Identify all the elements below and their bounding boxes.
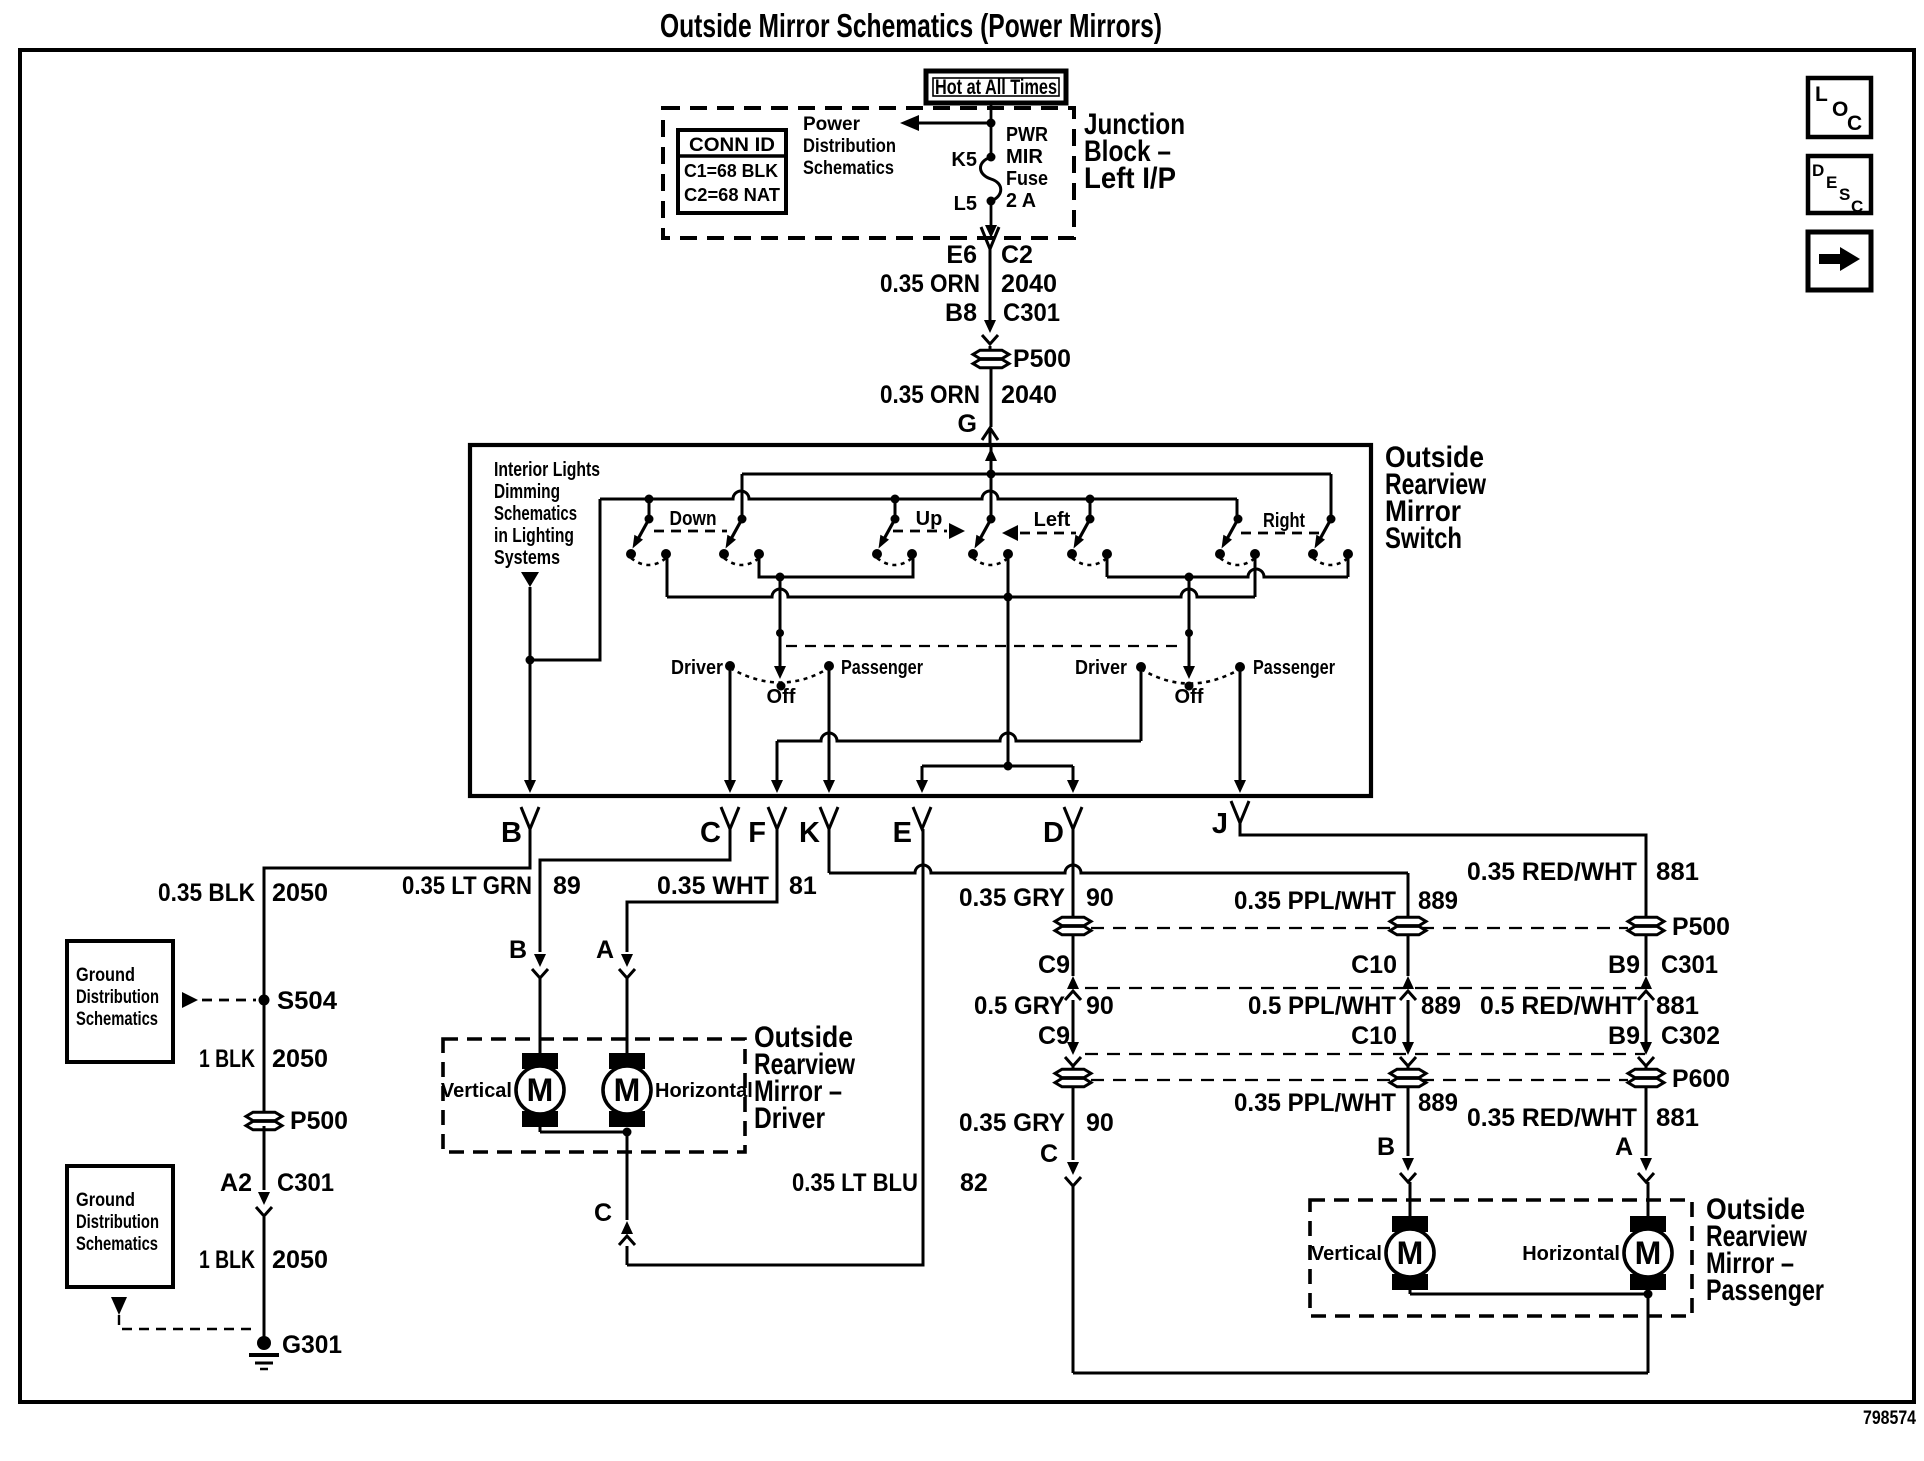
svg-text:Horizontal: Horizontal	[655, 1080, 753, 1102]
connector C301 break	[984, 320, 996, 333]
svg-text:B8: B8	[945, 299, 977, 327]
switch S2 (down pair)	[719, 515, 764, 566]
switch S1 (down)	[626, 515, 671, 566]
stub switch3	[894, 499, 897, 519]
Down dashed link	[654, 530, 727, 533]
svg-text:Outside Mirror Schematics (Pow: Outside Mirror Schematics (Power Mirrors…	[660, 7, 1162, 44]
wire J to RED column	[1240, 823, 1646, 917]
svg-text:0.35 PPL/WHT: 0.35 PPL/WHT	[1234, 887, 1396, 915]
dashed link to G301	[119, 1315, 252, 1329]
svg-text:89: 89	[553, 872, 581, 900]
svg-text:C2: C2	[1001, 241, 1033, 269]
stub switch2	[741, 474, 744, 519]
connector P500 inline	[973, 350, 1009, 358]
svg-text:C1=68 BLK: C1=68 BLK	[684, 161, 778, 181]
svg-text:881: 881	[1656, 858, 1699, 886]
motor M horizontal (passenger)	[1522, 1216, 1672, 1290]
svg-text:2040: 2040	[1001, 381, 1057, 409]
svg-text:0.5 PPL/WHT: 0.5 PPL/WHT	[1248, 992, 1396, 1020]
connector P600 inline (RED)	[1628, 1069, 1664, 1077]
svg-text:P500: P500	[1672, 913, 1730, 941]
wire into vertical motor	[539, 978, 542, 1056]
svg-text:0.35 ORN: 0.35 ORN	[880, 381, 980, 409]
contact Driver 1	[725, 661, 735, 671]
motor M vertical (passenger)	[1311, 1216, 1434, 1290]
switch S4 (up/left pair)	[968, 515, 1013, 566]
svg-text:1 BLK: 1 BLK	[199, 1246, 255, 1274]
svg-text:S: S	[1839, 185, 1850, 204]
svg-text:MIR: MIR	[1006, 146, 1044, 168]
svg-text:0.35 PPL/WHT: 0.35 PPL/WHT	[1234, 1089, 1396, 1117]
svg-text:Driver: Driver	[671, 657, 723, 679]
dashed connector line P600	[1091, 1079, 1628, 1081]
wire RED to P600	[1645, 1066, 1648, 1069]
wire C col to bottom	[1072, 1186, 1075, 1373]
selector dashed arc 1	[730, 668, 829, 683]
svg-text:P600: P600	[1672, 1065, 1730, 1093]
svg-text:Distribution: Distribution	[803, 136, 896, 157]
connector G chevron	[982, 428, 998, 440]
connector P500 inline (GRY)	[1055, 917, 1091, 925]
svg-text:Interior Lights: Interior Lights	[494, 459, 600, 481]
svg-text:0.35 WHT: 0.35 WHT	[657, 872, 769, 900]
wire P500 to G	[990, 368, 993, 427]
svg-text:Left: Left	[1034, 509, 1071, 531]
svg-text:Passenger: Passenger	[1253, 657, 1335, 679]
node S4R column on S1R-S6R line	[1004, 593, 1013, 602]
svg-text:C: C	[1851, 197, 1863, 216]
ground distribution box 1	[67, 941, 173, 1062]
svg-text:C2=68 NAT: C2=68 NAT	[684, 185, 780, 205]
wire B to S504 column	[264, 829, 530, 1117]
wire PPL to P600	[1407, 1066, 1410, 1069]
svg-text:2040: 2040	[1001, 270, 1057, 298]
svg-text:0.35 RED/WHT: 0.35 RED/WHT	[1467, 1104, 1637, 1132]
wire Driver2 to F	[1140, 667, 1143, 741]
svg-text:in Lighting: in Lighting	[494, 525, 574, 547]
ground G301 symbol	[257, 1336, 271, 1350]
wire Passenger2 to J	[1239, 667, 1242, 781]
contact Off (passenger side)	[1185, 682, 1194, 691]
junction block dashed box	[663, 108, 1074, 238]
wire GRY col upper	[1072, 829, 1075, 917]
svg-text:Off: Off	[767, 686, 796, 708]
Left dashed arrow	[1002, 525, 1018, 541]
svg-text:F: F	[748, 817, 766, 849]
connector break C10 down	[1402, 1042, 1414, 1055]
wire A2 to G301	[263, 1126, 266, 1190]
Up dashed arrow	[893, 530, 947, 533]
wire interior lights to B	[529, 587, 532, 781]
svg-text:M: M	[1397, 1235, 1424, 1271]
wire PPL col mid	[1407, 1000, 1410, 1042]
svg-text:Schematics: Schematics	[76, 1234, 158, 1255]
svg-text:Horizontal: Horizontal	[1522, 1243, 1620, 1265]
svg-text:81: 81	[789, 872, 817, 900]
connector break B9 up	[1640, 976, 1652, 989]
switch S7 (right pair)	[1308, 515, 1353, 566]
svg-text:Vertical: Vertical	[441, 1080, 512, 1102]
svg-text:Fuse: Fuse	[1006, 168, 1048, 190]
wire PPL col upper	[1407, 935, 1410, 976]
svg-text:C9: C9	[1038, 951, 1070, 979]
svg-text:C301: C301	[1003, 299, 1060, 327]
svg-text:C: C	[1040, 1140, 1058, 1168]
dashed connector line C302	[1085, 1053, 1645, 1055]
Right dashed link	[1241, 532, 1321, 535]
svg-text:Driver: Driver	[1075, 657, 1127, 679]
wiper1 wire and arrow	[779, 577, 782, 630]
svg-text:2 A: 2 A	[1006, 190, 1036, 212]
wire RED col lower	[1645, 1087, 1648, 1156]
wire A into horizontal motor (passenger)	[1647, 1182, 1650, 1218]
svg-text:Systems: Systems	[494, 547, 560, 569]
svg-text:M: M	[614, 1072, 641, 1108]
dashed connector line C301	[1085, 987, 1645, 989]
driver mirror dashed box	[443, 1039, 745, 1152]
wire link to bus2	[530, 499, 600, 660]
svg-text:B9: B9	[1608, 1022, 1640, 1050]
wire driver common to E	[627, 829, 923, 1265]
CONN ID table	[678, 130, 786, 213]
svg-text:881: 881	[1656, 1104, 1699, 1132]
svg-text:1 BLK: 1 BLK	[199, 1045, 255, 1073]
svg-text:G: G	[958, 410, 977, 438]
svg-text:C9: C9	[1038, 1022, 1070, 1050]
fuse PWR MIR 2A	[980, 157, 1000, 201]
svg-text:0.35 LT BLU: 0.35 LT BLU	[792, 1169, 918, 1197]
LOC icon box	[1808, 78, 1871, 137]
svg-text:Dimming: Dimming	[494, 481, 560, 503]
svg-text:L: L	[1815, 83, 1828, 106]
connector pin E	[913, 807, 931, 829]
svg-text:Schematics: Schematics	[494, 503, 577, 525]
node wiper2 feed	[1185, 573, 1194, 582]
S4R column wire	[1007, 554, 1010, 766]
svg-text:J: J	[1212, 808, 1228, 840]
svg-text:2050: 2050	[272, 879, 328, 907]
wire C to vertical motor	[540, 829, 730, 952]
connector break B9 down	[1640, 1042, 1652, 1055]
svg-text:889: 889	[1421, 992, 1461, 1020]
wire GRY col mid	[1072, 1000, 1075, 1042]
arrow into box bottom at B	[524, 780, 536, 793]
bus1 horizontal	[742, 473, 1331, 476]
svg-text:A: A	[1615, 1133, 1633, 1161]
wire passenger common to C col	[1073, 1372, 1648, 1375]
svg-text:90: 90	[1086, 884, 1114, 912]
Hot at All Times box	[926, 71, 1066, 103]
svg-text:0.35 LT GRN: 0.35 LT GRN	[402, 872, 532, 900]
driver motors common wire	[539, 1127, 542, 1132]
node on B wire	[526, 656, 535, 665]
connector break A passenger	[1640, 1158, 1652, 1171]
wire PPL col lower	[1407, 1087, 1410, 1156]
connector break C10 up	[1402, 976, 1414, 989]
svg-text:P500: P500	[1013, 345, 1071, 373]
svg-text:Ground: Ground	[76, 1190, 135, 1211]
connector pin J	[1231, 801, 1249, 823]
svg-text:889: 889	[1418, 1089, 1458, 1117]
wire into horizontal motor	[626, 978, 629, 1056]
svg-text:0.35 RED/WHT: 0.35 RED/WHT	[1467, 858, 1637, 886]
svg-text:D: D	[1812, 161, 1824, 180]
switch S6 (right)	[1215, 515, 1260, 566]
svg-text:0.35 BLK: 0.35 BLK	[158, 879, 255, 907]
node bus2 switch1	[645, 495, 654, 504]
contact Driver 2	[1136, 662, 1146, 672]
svg-text:798574: 798574	[1863, 1408, 1916, 1429]
svg-text:P500: P500	[290, 1107, 348, 1135]
svg-text:D: D	[1043, 817, 1064, 849]
connector P600 inline (GRY)	[1055, 1069, 1091, 1077]
wire hot feed	[990, 101, 993, 157]
wire E-D common	[922, 765, 1073, 768]
svg-text:G301: G301	[282, 1331, 342, 1359]
ground distribution box 2	[67, 1166, 173, 1287]
wire Passenger1 to K	[828, 666, 831, 781]
svg-text:881: 881	[1656, 992, 1699, 1020]
motor M horizontal (driver)	[603, 1053, 753, 1127]
connector break C9 down	[1067, 1042, 1079, 1055]
wire RED col upper	[1645, 935, 1648, 976]
connector break B (driver mirror)	[534, 954, 546, 967]
svg-text:A: A	[596, 936, 614, 964]
wire GRY col lower	[1072, 1087, 1075, 1160]
svg-text:B: B	[501, 817, 522, 849]
stub switch6	[1236, 499, 1239, 519]
node: hot feed junction	[987, 119, 996, 128]
arrow to power distribution	[911, 122, 989, 125]
svg-text:889: 889	[1418, 887, 1458, 915]
wire to P500	[989, 346, 992, 351]
svg-text:C: C	[700, 817, 721, 849]
svg-text:Schematics: Schematics	[803, 158, 894, 179]
interior lights feed triangle	[521, 572, 539, 587]
passenger motors common wire	[1409, 1290, 1412, 1294]
wire RED col mid	[1645, 1000, 1648, 1042]
svg-text:Ground: Ground	[76, 965, 135, 986]
svg-text:C10: C10	[1351, 951, 1397, 979]
svg-text:Vertical: Vertical	[1311, 1243, 1382, 1265]
svg-text:0.5 RED/WHT: 0.5 RED/WHT	[1480, 992, 1637, 1020]
passenger mirror dashed box	[1310, 1200, 1692, 1316]
svg-text:0.35 GRY: 0.35 GRY	[959, 1109, 1065, 1137]
arrow from ground box 1	[182, 992, 198, 1008]
contact Off (driver side)	[777, 682, 786, 691]
svg-text:E6: E6	[946, 241, 977, 269]
svg-text:Passenger: Passenger	[841, 657, 923, 679]
svg-text:Down: Down	[670, 508, 717, 530]
svg-text:82: 82	[960, 1169, 988, 1197]
stub switch4	[990, 474, 993, 519]
svg-text:Power: Power	[803, 114, 861, 135]
svg-text:C302: C302	[1661, 1022, 1720, 1050]
dashed connector line P500	[1091, 927, 1628, 929]
svg-text:B: B	[1377, 1133, 1395, 1161]
contact Passenger 1	[824, 661, 834, 671]
contact Passenger 2	[1235, 662, 1245, 672]
connector P500 inline (ground)	[246, 1112, 282, 1120]
wire B into vertical motor (passenger)	[1409, 1182, 1412, 1218]
node wiper1 feed	[776, 573, 785, 582]
wire S1R-S6R with hops	[666, 554, 669, 597]
svg-text:C: C	[1847, 112, 1862, 135]
svg-text:M: M	[527, 1072, 554, 1108]
svg-text:C301: C301	[277, 1169, 334, 1197]
DESC icon box	[1808, 156, 1871, 213]
svg-text:2050: 2050	[272, 1045, 328, 1073]
connector pin B	[521, 807, 539, 829]
wire GRY to P600	[1072, 1066, 1075, 1069]
connector pin C	[721, 807, 739, 829]
node bus1 feed	[987, 470, 996, 479]
wiper2 wire and arrow	[1188, 577, 1191, 630]
svg-text:Schematics: Schematics	[76, 1009, 158, 1030]
wire segment C2 to C301	[989, 249, 992, 320]
wire to E	[921, 766, 924, 781]
svg-text:L5: L5	[954, 193, 977, 215]
Outside Rearview Mirror Switch box	[470, 445, 1371, 796]
svg-text:Left I/P: Left I/P	[1084, 162, 1176, 195]
node bus2 switch5	[1086, 495, 1095, 504]
stub switch7	[1330, 474, 1333, 519]
wire S2R-S3R	[759, 554, 913, 577]
connector break A (driver mirror)	[621, 954, 633, 967]
connector break C passenger	[1067, 1162, 1079, 1175]
svg-text:E: E	[893, 817, 912, 849]
wire S5R-S7R with hop	[1106, 554, 1109, 577]
wire fuse to connector C2	[990, 201, 993, 226]
svg-text:90: 90	[1086, 992, 1114, 1020]
svg-text:CONN ID: CONN ID	[689, 135, 775, 156]
svg-text:Off: Off	[1175, 686, 1204, 708]
wire F to horizontal motor	[627, 829, 777, 952]
svg-text:O: O	[1832, 98, 1848, 121]
connector break C9 up	[1067, 976, 1079, 989]
svg-text:K5: K5	[951, 149, 977, 171]
connector C2 chevron	[981, 227, 999, 249]
svg-text:E: E	[1826, 173, 1837, 192]
connector pin D	[1064, 807, 1082, 829]
svg-text:A2: A2	[220, 1169, 252, 1197]
svg-text:Driver: Driver	[754, 1102, 825, 1135]
wire Driver1 to C	[729, 666, 732, 781]
node S4R to E-D line	[1004, 762, 1013, 771]
connector P500 inline (PPL)	[1390, 917, 1426, 925]
bus2 horizontal with hops	[600, 491, 1237, 499]
svg-text:C: C	[594, 1199, 612, 1227]
svg-text:Switch: Switch	[1385, 522, 1462, 555]
connector break B passenger	[1402, 1158, 1414, 1171]
node bus2 switch3	[891, 495, 900, 504]
node S504	[259, 995, 270, 1006]
connector break C (driver mirror)	[621, 1221, 633, 1234]
svg-text:Distribution: Distribution	[76, 987, 159, 1008]
connector break A2-C301	[258, 1192, 270, 1205]
svg-text:K: K	[799, 817, 820, 849]
svg-text:C301: C301	[1661, 951, 1718, 979]
feed arrow into switch box	[990, 445, 993, 474]
connector pin F	[768, 807, 786, 829]
connector P600 inline (PPL)	[1390, 1069, 1426, 1077]
wire to D	[1072, 766, 1075, 781]
svg-text:2050: 2050	[272, 1246, 328, 1274]
connector P500 inline (RED)	[1628, 917, 1664, 925]
switch S5 (left pair)	[1067, 515, 1112, 566]
wire K to PPL column	[828, 829, 831, 873]
svg-text:Passenger: Passenger	[1706, 1274, 1824, 1307]
connector pin K	[820, 807, 838, 829]
selector dashed arc 2	[1141, 669, 1240, 684]
stub switch1	[648, 499, 651, 519]
svg-text:Right: Right	[1263, 510, 1305, 532]
svg-text:0.5 GRY: 0.5 GRY	[974, 992, 1065, 1020]
svg-text:Up: Up	[916, 508, 943, 530]
svg-text:M: M	[1635, 1235, 1662, 1271]
ganged wiper dashed link	[786, 645, 1178, 647]
switch S3 (up)	[872, 515, 917, 566]
arrow from ground box 2	[111, 1297, 127, 1315]
stub switch5	[1089, 499, 1092, 519]
forward arrow icon box	[1808, 232, 1871, 290]
svg-text:0.35 ORN: 0.35 ORN	[880, 270, 980, 298]
motor M vertical (driver)	[441, 1053, 564, 1127]
svg-text:90: 90	[1086, 1109, 1114, 1137]
svg-text:B9: B9	[1608, 951, 1640, 979]
svg-text:Hot at All Times: Hot at All Times	[935, 76, 1057, 99]
svg-text:S504: S504	[277, 987, 337, 1015]
svg-text:0.35 GRY: 0.35 GRY	[959, 884, 1065, 912]
svg-text:C10: C10	[1351, 1022, 1397, 1050]
svg-text:B: B	[509, 936, 527, 964]
svg-text:Distribution: Distribution	[76, 1212, 159, 1233]
svg-text:PWR: PWR	[1006, 124, 1048, 146]
